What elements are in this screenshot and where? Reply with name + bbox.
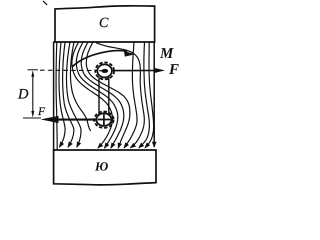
dimension D dashed line to upper conductor <box>40 69 97 71</box>
magnet pole C (north), rectangle with wavy top edge <box>55 6 155 42</box>
dimension D bottom tick <box>23 117 41 119</box>
force arrow F on upper conductor (pointing right) <box>113 70 156 72</box>
upper conductor circle (current out of page) <box>97 64 112 77</box>
loop frame right side <box>108 78 110 114</box>
svg-text:F: F <box>168 62 179 78</box>
field line left 3 with arrow <box>63 42 74 147</box>
dimension D top tick <box>28 69 39 71</box>
upper conductor hatched ring <box>95 62 114 79</box>
field line left 4 with arrow <box>66 42 80 147</box>
dimension arrow up <box>31 70 34 77</box>
svg-text:Ю: Ю <box>94 159 108 173</box>
loop frame left side <box>98 78 100 115</box>
S field line 1 (hugging top conductor, wide around lower) <box>86 42 130 148</box>
svg-text:D: D <box>17 87 29 103</box>
svg-text:F: F <box>37 106 46 118</box>
S field line 2 <box>81 42 124 148</box>
field line left 1 <box>56 42 57 150</box>
field line right c <box>139 42 149 147</box>
moment arrow head <box>124 51 135 57</box>
moment arrow M (arc over top conductor) <box>73 50 127 66</box>
left boundary field line <box>53 42 55 150</box>
lower conductor circle (current into page) <box>96 113 111 126</box>
field line right a <box>124 42 137 147</box>
svg-text:M: M <box>159 46 174 62</box>
force arrow F on lower conductor (pointing left) <box>55 119 96 121</box>
lower conductor current cross <box>98 114 111 125</box>
field line left 2 with arrow <box>59 42 65 147</box>
S field line 3 <box>76 42 118 148</box>
svg-text:C: C <box>99 16 109 31</box>
field line sweeping over top conductor down right side <box>97 43 145 148</box>
lower conductor hatched ring <box>94 112 113 128</box>
right boundary field line with arrow into south pole <box>153 42 155 146</box>
magnet pole Yu (south), rectangle with wavy bottom edge <box>54 150 156 185</box>
stray mark top-left <box>43 1 47 4</box>
field line right d <box>145 42 153 147</box>
S field line 4 (outer wrap, tight under lower conductor) <box>72 42 113 148</box>
dimension D vertical line with arrows both ends <box>32 75 34 114</box>
upper conductor current dot with lead-in dash <box>101 69 108 73</box>
field line left 5 merging toward loop <box>70 42 90 131</box>
dimension arrow down <box>31 111 34 118</box>
